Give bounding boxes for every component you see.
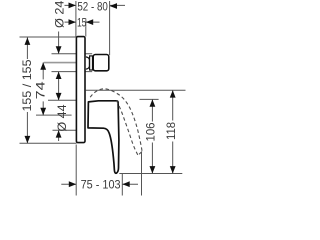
knob ring [90,56,93,70]
svg-text:155 / 155: 155 / 155 [20,59,34,111]
wire: lever tip extension down (75 ref) [121,174,123,196]
arrowheads 74 [40,62,46,69]
arrowheads 75-103 [69,181,76,187]
wire: wall plane extension up (52-80 left / 15 left) [75,1,77,37]
wire: cap top ref line (O24 top) [52,53,93,55]
label O24 rotated [53,0,67,28]
label 106 rotated [144,122,158,143]
wire: hub top ref line left (O44 top) [48,99,76,101]
svg-text:118: 118 [164,122,178,140]
wire: plate front extension (15 right) [85,19,87,37]
label 15 [77,15,87,29]
lever handle dashed outer [90,89,142,152]
wire: plate-top extension line [20,36,76,38]
wire: dashed-peak ref line (118 top) [86,89,186,91]
dimension 155/155 line [26,38,28,144]
dimension 106 line [151,99,153,173]
arrowheads 155 [25,38,31,45]
svg-text:Ø 44: Ø 44 [55,104,69,131]
node: knob axis centerline [44,62,76,64]
lever handle dashed inner [117,101,139,156]
svg-text:74: 74 [34,81,48,99]
label 75-103 [80,177,122,191]
dimension O24/O44 middle leader [58,72,60,101]
svg-text:52 - 80: 52 - 80 [77,0,108,13]
svg-text:15: 15 [77,15,87,29]
wire: cap front extension up (52-80 right) [109,1,111,55]
arrowheads 15 [69,19,76,25]
label 74 rotated [34,79,48,101]
arrowheads 52-80 [69,3,76,9]
label 155/155 rotated [20,59,34,112]
wire: plate bottom extension line (155 bottom ref) [20,142,77,144]
knob sleeve [86,57,90,69]
escutcheon plate [76,37,85,143]
arrowheads O24 [56,46,62,53]
dimension 75-103 tails [61,183,138,185]
lever handle dashed tip [138,152,142,156]
svg-text:Ø 24: Ø 24 [53,0,67,28]
svg-text:75 - 103: 75 - 103 [81,177,121,191]
dimension 118 line [172,90,174,173]
wire: lever tip ref line (106/118 bottom) [119,173,182,175]
label O44 rotated [55,104,69,131]
wire: dashed tip extension down (103 ref) [141,153,143,196]
dimension 15 tails [65,21,100,23]
arrowheads 118 [170,90,176,97]
svg-text:106: 106 [144,122,158,141]
dimension 52-80 tails [65,4,126,6]
wire: cap bottom ref line (O24 bottom) [52,71,93,73]
arrowheads O44 [56,93,62,100]
node: lever axis centerline [36,114,72,116]
wire: hub bottom ref line (O44 bottom) [53,129,77,131]
knob cap [93,55,109,71]
wire: wall plane extension down (75-103 left) [75,145,77,196]
dimension O44 lower leader [58,130,60,141]
label 118 rotated [164,121,178,142]
wire: lever-top ref line right (106 top) [140,98,159,100]
arrowheads 106 [150,99,156,106]
dimension O24 upper leader [58,32,60,54]
dimension 74 line [42,62,44,115]
lever handle solid [88,101,119,173]
